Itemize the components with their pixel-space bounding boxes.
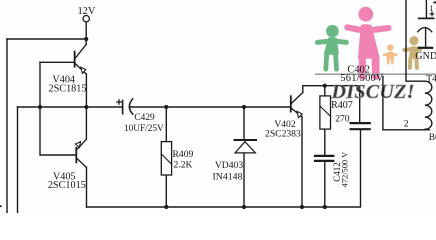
- svg-text:10UF/25V: 10UF/25V: [124, 124, 164, 134]
- svg-text:2.2K: 2.2K: [174, 160, 193, 171]
- wire VD403 top lead: [243, 107, 245, 140]
- svg-text:2SC1815: 2SC1815: [49, 84, 87, 95]
- wire main horizontal left of C429: [18, 106, 123, 108]
- svg-text:C429: C429: [134, 113, 155, 123]
- node R407 top / V402 collector: [323, 84, 327, 88]
- wire C412 bottom lead: [324, 162, 326, 207]
- wire R409 top lead: [165, 107, 167, 142]
- node R409 top: [164, 105, 168, 109]
- svg-text:472/500 V: 472/500 V: [341, 152, 350, 187]
- wire transformer bottom: [383, 129, 430, 131]
- resistor R409: [161, 142, 171, 175]
- node emitters on main wire: [84, 105, 88, 109]
- svg-text:DISCUZ!: DISCUZ!: [331, 81, 415, 103]
- node V402 emitter on rail: [300, 205, 304, 209]
- wire V405 collector vertical: [86, 167, 88, 207]
- capacitor C412: [314, 156, 335, 161]
- node 12V supply junction: [84, 37, 88, 41]
- wire R407 top lead: [324, 86, 326, 96]
- svg-text:VD403: VD403: [215, 160, 243, 171]
- coil T4 primary: [425, 81, 432, 129]
- svg-text:12V: 12V: [77, 6, 95, 17]
- wire V402 collector node: [303, 86, 360, 93]
- wire C402 top lead: [359, 86, 361, 123]
- wire bottom rail: [87, 130, 361, 207]
- terminal 12V circle: [83, 16, 89, 22]
- svg-text:2SC2383: 2SC2383: [265, 129, 301, 140]
- wire top-left horizontal: [7, 38, 86, 40]
- transistor V402: [291, 93, 303, 118]
- node VD403 anode on rail: [242, 205, 246, 209]
- watermark floor line: [315, 73, 436, 75]
- node R409 bottom on rail: [164, 205, 168, 209]
- wire V404 base horizontal: [40, 61, 75, 63]
- wire R407 bottom lead: [324, 129, 326, 154]
- wire transformer left vertical: [382, 77, 384, 130]
- svg-text:2: 2: [404, 118, 409, 129]
- svg-text:B0: B0: [429, 133, 436, 143]
- wire left inner vertical: [17, 107, 19, 213]
- edge tick bottom-left: [0, 205, 2, 207]
- capacitor top-right with GND: [417, 18, 434, 47]
- capacitor top-right lead: [425, 0, 427, 17]
- wire collector stub V404: [85, 39, 87, 45]
- svg-text:270: 270: [335, 113, 350, 124]
- wire transformer feed vertical: [406, 0, 424, 81]
- resistor R407: [320, 96, 331, 129]
- svg-text:IN4148: IN4148: [213, 171, 243, 182]
- watermark small orange figure: [384, 44, 396, 63]
- capacitor C402: [350, 123, 371, 129]
- diode VD403: [234, 140, 258, 153]
- svg-text:R409: R409: [173, 149, 194, 160]
- wire left outer vertical: [6, 39, 8, 213]
- wire 12V stem: [85, 22, 87, 39]
- wire main horizontal right of C429: [130, 106, 291, 108]
- wire emitters vertical: [85, 74, 87, 139]
- transistor V405: [75, 139, 86, 167]
- node V404 base / V405 base on main wire: [38, 105, 42, 109]
- node C412 on rail: [323, 205, 327, 209]
- watermark khaki figure: [404, 36, 420, 68]
- wire gnd cap stem: [425, 29, 427, 47]
- capacitor C429: [116, 98, 133, 114]
- svg-text:GND: GND: [415, 51, 436, 62]
- wire base vertical x40: [40, 62, 76, 155]
- watermark green figure: [317, 25, 346, 69]
- node VD403 cathode: [242, 105, 246, 109]
- wire R409 bottom lead: [165, 175, 167, 207]
- wire V402 emitter vertical: [301, 117, 303, 208]
- transistor V404: [75, 44, 87, 74]
- svg-text:T4: T4: [426, 75, 436, 85]
- watermark pink figure: [347, 7, 388, 76]
- svg-text:2SC1015: 2SC1015: [48, 180, 86, 191]
- wire VD403 bottom lead: [243, 153, 245, 207]
